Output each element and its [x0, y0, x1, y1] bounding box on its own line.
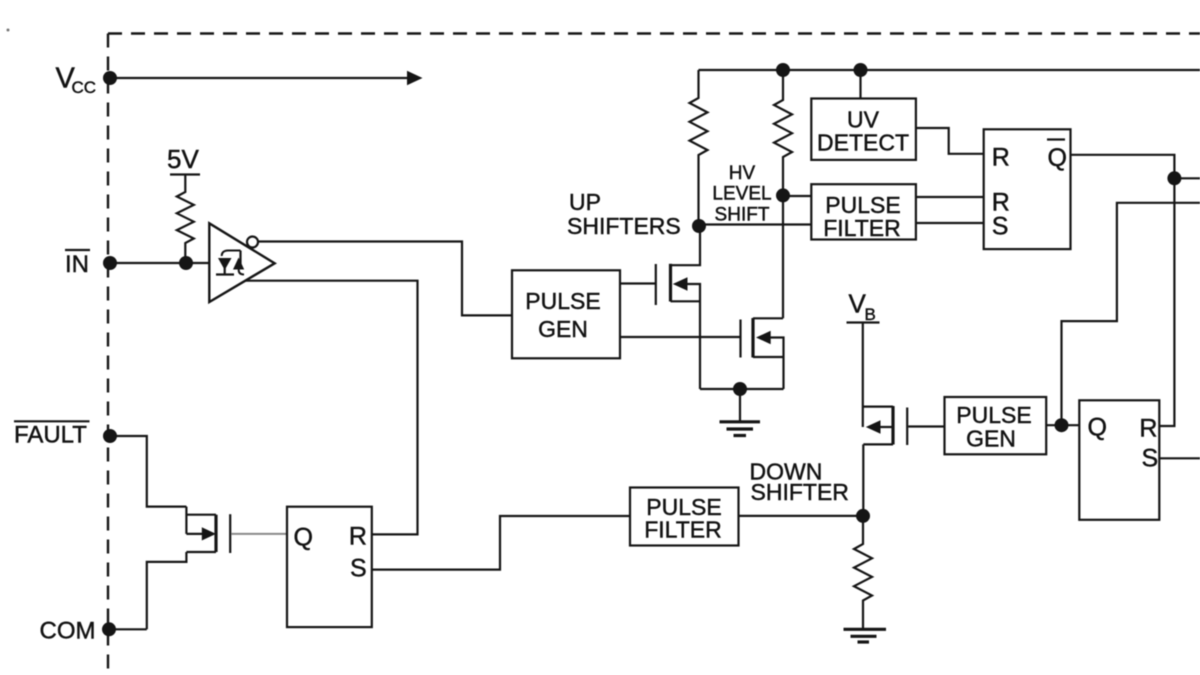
svg-text:DETECT: DETECT	[817, 130, 909, 156]
node: Qbar junction	[1167, 171, 1181, 185]
output latch (high side Q R S)	[1079, 400, 1159, 520]
svg-text:R: R	[1139, 415, 1157, 443]
wire: rail to UV detect	[859, 70, 861, 99]
svg-text:S: S	[350, 555, 367, 583]
DOWN SHIFTER label	[750, 459, 849, 506]
wire: IN pin to buffer input	[110, 262, 209, 264]
svg-text:GEN: GEN	[538, 316, 588, 342]
transistor Q2 (fault open drain)	[147, 507, 230, 630]
wire: pulse gen to Q4 gate	[620, 336, 740, 338]
svg-text:S: S	[1142, 445, 1159, 473]
wire: buffer inverted output to pulse gen input	[258, 242, 512, 316]
svg-text:SHIFTERS: SHIFTERS	[567, 213, 681, 239]
wire: Q5 gate lead	[908, 425, 944, 427]
svg-text:FAULT: FAULT	[14, 422, 87, 449]
VB label	[849, 289, 876, 325]
resistor R2 (HV level shift, left)	[690, 70, 708, 226]
VCC pin dot	[103, 71, 117, 85]
ground (down shifter)	[844, 629, 887, 642]
node: source rail junction	[733, 382, 747, 396]
wire: pulse gen to output latch Q	[1046, 424, 1079, 426]
wire: buffer true output down to input latch R	[246, 281, 418, 535]
FAULT label (overlined)	[14, 421, 90, 448]
wire: Qbar output	[1071, 155, 1175, 426]
node: R3 bottom junction	[776, 188, 790, 202]
wire: UV detect to latch R	[916, 128, 984, 154]
wire: output latch Q feedback to right edge	[1062, 203, 1200, 425]
transistor Q3 (up shifter high MOSFET)	[656, 226, 700, 389]
svg-text:IN: IN	[65, 251, 89, 278]
IN label (overlined)	[65, 250, 90, 278]
wire: Q3/Q4 source rail	[700, 388, 784, 390]
svg-text:CC: CC	[72, 78, 97, 97]
wire: R2 node to pulse filter	[699, 223, 811, 225]
svg-text:B: B	[865, 305, 876, 324]
wire: pulse filter to down shifter node	[739, 515, 864, 517]
5V supply bar	[170, 173, 200, 175]
node: R2 bottom junction	[692, 219, 706, 233]
wire: pulse filter to latch R	[916, 196, 984, 198]
schmitt buffer U1 triangle	[209, 223, 274, 302]
hysteresis glyph	[216, 251, 244, 275]
FAULT pin dot	[103, 429, 117, 443]
svg-text:FILTER: FILTER	[644, 517, 722, 543]
svg-text:PULSE: PULSE	[956, 402, 1031, 428]
svg-text:Q: Q	[294, 524, 313, 552]
svg-text:R: R	[349, 523, 367, 551]
resistor R3 (HV level shift, right)	[774, 70, 792, 318]
wire: FAULT pin to Q2 drain	[110, 436, 186, 507]
svg-text:S: S	[992, 213, 1009, 241]
PULSE GEN block (high side)	[945, 397, 1047, 454]
transistor Q5 (down shifter MOSFET)	[863, 322, 907, 516]
COM pin dot	[102, 622, 116, 636]
wire: pulse filter to latch S	[916, 222, 984, 224]
wire: Q2 gate to input latch Q (gray)	[231, 533, 287, 535]
wire: VCC arrow to internal supply	[110, 71, 423, 86]
VCC label	[56, 63, 97, 98]
node: rail/UV junction	[854, 63, 868, 77]
wire: top VCC rail	[699, 69, 1200, 71]
svg-text:PULSE: PULSE	[525, 288, 600, 314]
node: Q/pulse gen junction	[1055, 418, 1069, 432]
node: IN/R1 junction	[179, 256, 193, 270]
svg-text:LEVEL: LEVEL	[712, 184, 771, 205]
svg-text:SHIFT: SHIFT	[715, 205, 770, 226]
svg-text:COM: COM	[40, 618, 96, 645]
IN pin dot	[103, 256, 117, 270]
wire: R3 node to pulse filter	[783, 195, 811, 197]
VB supply bar	[847, 321, 880, 323]
svg-text:Q: Q	[1088, 414, 1107, 442]
wire: output latch S to right edge	[1159, 457, 1200, 459]
HV LEVEL SHIFT label	[712, 163, 771, 226]
node: rail/R3 junction	[776, 63, 790, 77]
PULSE FILTER block (high side)	[811, 184, 916, 241]
inverter bubble	[247, 237, 258, 248]
dashed IC boundary left edge	[107, 34, 109, 675]
svg-text:FILTER: FILTER	[823, 215, 901, 241]
svg-text:R: R	[992, 144, 1010, 172]
svg-text:SHIFTER: SHIFTER	[751, 479, 849, 505]
resistor R1 (5V pull-up)	[177, 175, 194, 264]
speck artifact top-left	[7, 29, 10, 32]
resistor R4 (down shifter load)	[854, 516, 872, 629]
svg-text:Q: Q	[1048, 144, 1067, 172]
PULSE GEN block (input)	[512, 270, 620, 358]
wire: Qbar node to HO driver (right edge)	[1174, 177, 1200, 179]
UP SHIFTERS label	[567, 189, 681, 239]
node: down shifter junction	[856, 509, 870, 523]
RS latch (high side)	[984, 129, 1071, 249]
svg-text:UP: UP	[569, 189, 601, 215]
svg-text:HV: HV	[729, 163, 756, 184]
UV DETECT block	[811, 99, 916, 160]
input latch (Q R S)	[287, 507, 372, 627]
PULSE FILTER block (low side)	[630, 488, 739, 546]
transistor Q4 (up shifter low MOSFET)	[741, 318, 784, 389]
wire: pulse gen to Q3 gate	[620, 282, 655, 284]
dashed IC boundary top edge	[108, 32, 1200, 34]
svg-text:GEN: GEN	[966, 426, 1016, 452]
svg-text:5V: 5V	[167, 144, 199, 174]
ground (up shifters)	[720, 389, 761, 436]
wire: COM pin to Q2 source	[109, 628, 147, 630]
wire: input latch S to pulse filter	[372, 516, 630, 570]
